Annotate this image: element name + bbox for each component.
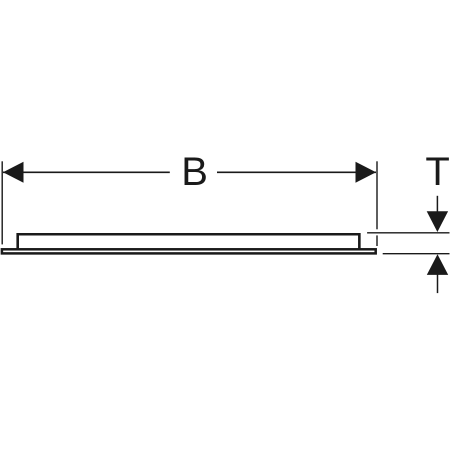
svg-text:T: T [425,150,449,194]
svg-text:B: B [181,150,208,194]
